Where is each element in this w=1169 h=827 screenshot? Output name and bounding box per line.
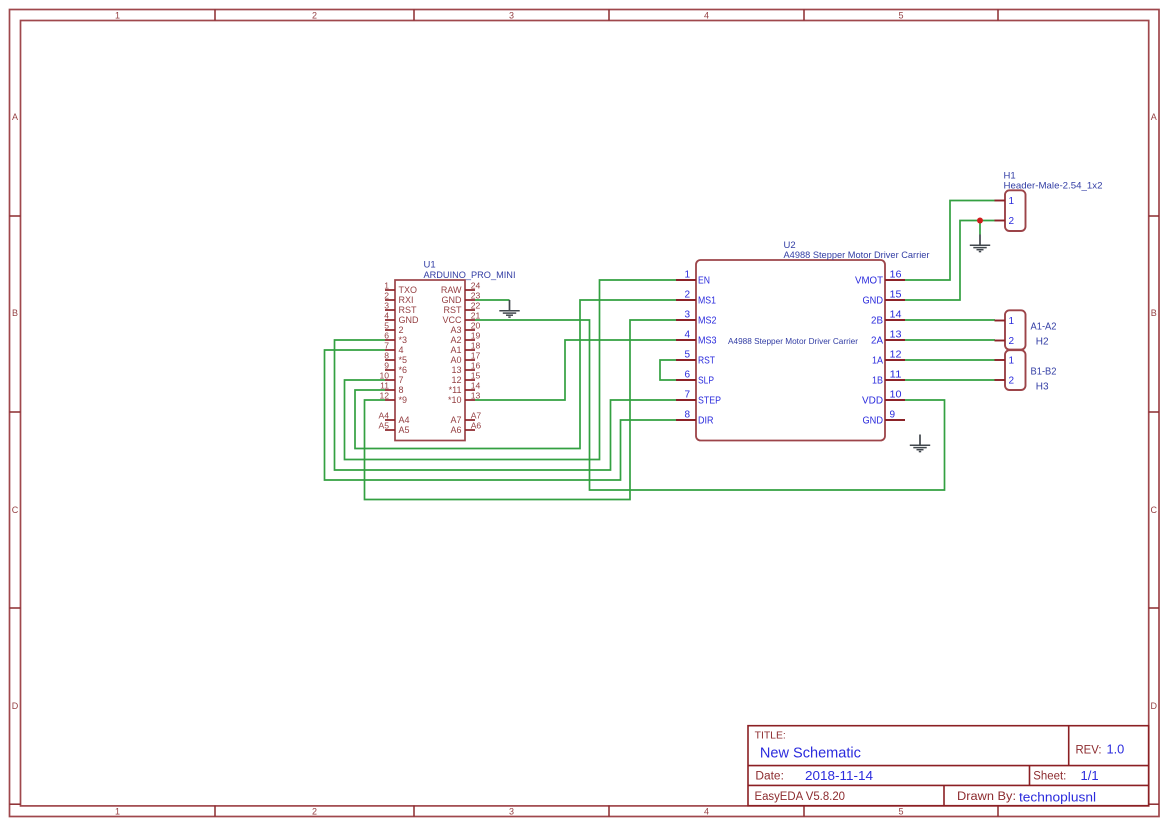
svg-text:9: 9: [384, 361, 389, 371]
IC U2 body: [696, 260, 885, 441]
U2 pin numbers: [684, 270, 902, 421]
svg-text:GND: GND: [863, 416, 884, 427]
svg-text:2: 2: [399, 325, 404, 335]
wire net RST-SLP jumper: U2 pin5 to U2 pin6: [660, 360, 676, 380]
wire net GND: U1 pin23 to ground: [475, 299, 510, 301]
svg-text:21: 21: [471, 311, 481, 321]
wire net VCC: U1 pin21 VCC to U2 pin10 VDD: [475, 320, 945, 490]
svg-text:TXO: TXO: [399, 285, 418, 295]
svg-text:1: 1: [684, 270, 690, 281]
wire net 2B: U2 pin14 to H2 pin1: [905, 319, 995, 321]
svg-text:EN: EN: [698, 276, 710, 287]
svg-text:8: 8: [399, 385, 404, 395]
svg-text:New Schematic: New Schematic: [760, 745, 861, 762]
svg-text:REV:: REV:: [1076, 742, 1102, 756]
svg-text:4: 4: [684, 330, 690, 341]
svg-text:23: 23: [471, 291, 481, 301]
svg-text:1.0: 1.0: [1107, 741, 1125, 756]
svg-text:12: 12: [890, 350, 902, 361]
svg-text:4: 4: [704, 11, 709, 21]
connector H1 body: [1005, 190, 1026, 231]
U1 pin numbers: [378, 281, 481, 431]
svg-text:A4: A4: [378, 411, 389, 421]
svg-text:A5: A5: [378, 421, 389, 431]
svg-text:A4: A4: [399, 415, 410, 425]
svg-text:A6: A6: [450, 425, 461, 435]
svg-text:A: A: [12, 112, 18, 122]
svg-text:11: 11: [890, 370, 902, 381]
svg-text:1B: 1B: [872, 376, 883, 387]
svg-text:A1-A2: A1-A2: [1031, 322, 1057, 333]
svg-text:7: 7: [384, 341, 389, 351]
svg-text:*3: *3: [399, 335, 408, 345]
svg-text:16: 16: [471, 361, 481, 371]
svg-text:A5: A5: [399, 425, 410, 435]
svg-text:6: 6: [684, 370, 690, 381]
wire net D4: U1 pin7 to U2 pin8 DIR: [325, 350, 677, 480]
svg-text:10: 10: [379, 371, 389, 381]
svg-text:1: 1: [115, 806, 120, 816]
svg-text:A4988 Stepper Motor Driver Car: A4988 Stepper Motor Driver Carrier: [784, 250, 930, 261]
svg-text:14: 14: [890, 310, 902, 321]
svg-text:Date:: Date:: [755, 771, 784, 783]
ground (U2 area, floating): [910, 435, 930, 452]
svg-text:GND: GND: [863, 296, 884, 307]
svg-text:VDD: VDD: [862, 396, 883, 407]
svg-text:D: D: [1151, 701, 1158, 711]
svg-text:A2: A2: [450, 335, 461, 345]
svg-text:STEP: STEP: [698, 396, 721, 407]
wire net 2A: U2 pin13 to H2 pin2: [905, 339, 995, 341]
svg-text:20: 20: [471, 321, 481, 331]
svg-text:2B: 2B: [871, 316, 883, 327]
svg-text:*10: *10: [448, 395, 462, 405]
svg-text:1: 1: [384, 281, 389, 291]
svg-text:15: 15: [890, 290, 902, 301]
wire net D10: U1 pin13 *10 to U2 pin4 MS3: [475, 340, 676, 400]
wire net D3: U1 pin6 *3 to U2 pin7 STEP: [335, 340, 677, 470]
svg-text:1: 1: [1009, 196, 1015, 207]
svg-text:14: 14: [471, 381, 481, 391]
svg-text:GND: GND: [399, 315, 420, 325]
IC U1 body: [395, 280, 465, 441]
svg-text:*6: *6: [399, 365, 408, 375]
wire net VMOT: U2 pin16 to H1 pin1: [905, 201, 995, 281]
svg-text:A7: A7: [471, 411, 482, 421]
svg-text:10: 10: [890, 390, 902, 401]
svg-text:Header-Male-2.54_1x2: Header-Male-2.54_1x2: [1004, 180, 1103, 191]
svg-text:4: 4: [384, 311, 389, 321]
wire net D9: U1 pin12 *9 to U2 pin3 MS2: [365, 320, 677, 500]
svg-text:MS2: MS2: [698, 316, 717, 327]
svg-text:6: 6: [384, 331, 389, 341]
svg-text:2: 2: [684, 290, 690, 301]
svg-text:4: 4: [704, 806, 709, 816]
svg-text:4: 4: [399, 345, 404, 355]
svg-text:16: 16: [890, 270, 902, 281]
svg-text:11: 11: [380, 381, 389, 391]
svg-text:19: 19: [471, 331, 481, 341]
svg-text:2018-11-14: 2018-11-14: [805, 768, 873, 783]
svg-text:B: B: [12, 308, 18, 318]
svg-text:2: 2: [384, 291, 389, 301]
svg-text:1: 1: [115, 11, 120, 21]
ground (H1 pin2 net): [970, 235, 990, 252]
svg-text:7: 7: [684, 390, 690, 401]
wire net 1B: U2 pin11 to H3 pin2: [905, 379, 995, 381]
junction dot net GND2: [977, 218, 983, 224]
svg-text:9: 9: [890, 410, 896, 421]
svg-text:2A: 2A: [871, 336, 883, 347]
svg-text:A0: A0: [450, 355, 461, 365]
svg-text:8: 8: [684, 410, 690, 421]
title block frame: [748, 726, 1149, 806]
svg-text:RST: RST: [444, 305, 463, 315]
svg-text:1A: 1A: [872, 356, 883, 367]
svg-text:2: 2: [1009, 216, 1015, 227]
svg-text:technoplusnl: technoplusnl: [1019, 789, 1096, 804]
svg-text:SLP: SLP: [698, 376, 714, 387]
svg-text:3: 3: [509, 806, 514, 816]
svg-text:1/1: 1/1: [1081, 768, 1099, 783]
svg-text:H2: H2: [1036, 337, 1049, 348]
svg-text:ARDUINO_PRO_MINI: ARDUINO_PRO_MINI: [424, 270, 516, 281]
svg-text:A4988 Stepper Motor Driver Car: A4988 Stepper Motor Driver Carrier: [728, 337, 858, 346]
svg-text:3: 3: [384, 301, 389, 311]
svg-text:2: 2: [312, 11, 317, 21]
svg-text:A6: A6: [471, 421, 482, 431]
svg-text:*5: *5: [399, 355, 408, 365]
svg-text:B1-B2: B1-B2: [1031, 366, 1057, 377]
svg-text:A3: A3: [450, 325, 461, 335]
U2 pin names: [698, 276, 883, 427]
svg-text:C: C: [12, 505, 19, 515]
svg-text:13: 13: [451, 365, 461, 375]
svg-text:EasyEDA V5.8.20: EasyEDA V5.8.20: [755, 791, 846, 803]
svg-text:5: 5: [898, 806, 903, 816]
svg-text:H3: H3: [1036, 381, 1049, 392]
svg-text:7: 7: [399, 375, 404, 385]
svg-text:5: 5: [384, 321, 389, 331]
svg-text:22: 22: [471, 301, 481, 311]
svg-text:RST: RST: [698, 356, 715, 367]
svg-text:C: C: [1151, 505, 1158, 515]
wire net D8: U1 pin11 to U2 pin2 MS1: [355, 300, 676, 449]
svg-text:RXI: RXI: [399, 295, 414, 305]
connector H2 body: [1005, 310, 1026, 349]
svg-text:2: 2: [1009, 336, 1015, 347]
svg-text:13: 13: [890, 330, 902, 341]
wire net D7: U1 pin10 to U2 pin1 EN: [345, 280, 677, 460]
svg-text:Sheet:: Sheet:: [1033, 771, 1066, 783]
svg-text:D: D: [12, 701, 19, 711]
svg-text:A1: A1: [450, 345, 461, 355]
connector H3 body: [1005, 350, 1026, 390]
svg-text:1: 1: [1009, 316, 1015, 327]
svg-text:8: 8: [384, 351, 389, 361]
svg-text:3: 3: [509, 11, 514, 21]
svg-text:17: 17: [471, 351, 481, 361]
svg-text:5: 5: [898, 11, 903, 21]
svg-text:*9: *9: [399, 395, 408, 405]
wire net GND2 ground stem: [979, 221, 981, 235]
U1 pin names: [399, 285, 463, 435]
ground (U1 pin23 GND): [499, 300, 519, 317]
svg-text:2: 2: [1009, 376, 1015, 387]
svg-text:2: 2: [312, 806, 317, 816]
svg-text:12: 12: [451, 375, 461, 385]
svg-text:12: 12: [379, 391, 389, 401]
svg-text:B: B: [1151, 308, 1157, 318]
svg-text:15: 15: [471, 371, 481, 381]
svg-text:RAW: RAW: [441, 285, 462, 295]
svg-text:RST: RST: [399, 305, 418, 315]
svg-text:1: 1: [1009, 356, 1015, 367]
svg-text:13: 13: [471, 391, 481, 401]
svg-text:MS1: MS1: [698, 296, 716, 307]
wire net GND2: U2 pin15 to H1 pin2: [905, 221, 995, 301]
svg-text:TITLE:: TITLE:: [755, 731, 786, 742]
svg-text:3: 3: [684, 310, 690, 321]
svg-text:18: 18: [471, 341, 481, 351]
svg-text:*11: *11: [449, 385, 462, 395]
svg-text:24: 24: [471, 281, 481, 291]
svg-text:5: 5: [684, 350, 690, 361]
svg-text:GND: GND: [442, 295, 463, 305]
svg-text:DIR: DIR: [698, 416, 714, 427]
svg-text:A7: A7: [450, 415, 461, 425]
svg-text:A: A: [1151, 112, 1157, 122]
svg-text:VCC: VCC: [442, 315, 462, 325]
svg-text:Drawn By:: Drawn By:: [957, 791, 1016, 803]
svg-text:VMOT: VMOT: [855, 276, 883, 287]
svg-text:MS3: MS3: [698, 336, 717, 347]
wire net 1A: U2 pin12 to H3 pin1: [905, 359, 995, 361]
